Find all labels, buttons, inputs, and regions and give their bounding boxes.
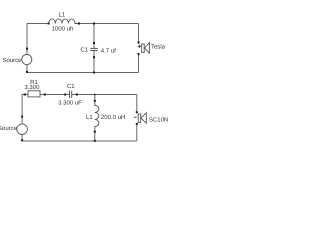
wire top circuit: top rail left segment [27,24,49,49]
wire top circuit: right branch lower [138,54,140,72]
svg-text:4.7 uf: 4.7 uf [101,47,116,54]
wire top circuit: bottom rail [27,72,139,74]
pin dot speaker Tesla + [138,42,140,44]
pin dot source (bottom circuit) bottom [21,139,23,141]
pin dot C1 top [93,42,95,44]
wire top circuit: left branch lower [26,64,28,72]
resistor R1 box [28,91,40,97]
wire C1 branch lower [93,51,95,73]
pin dot L1 (bottom) bottom [94,131,96,133]
wire bottom circuit: source bottom stub [21,134,23,141]
svg-text:C1: C1 [67,83,75,90]
capacitor C1 (top) plates [90,47,98,49]
svg-text:L1: L1 [58,12,65,19]
svg-text:200.0 uH: 200.0 uH [101,114,125,121]
pin dot C1 (bottom circuit) left [64,94,66,96]
speaker Tesla icon [142,43,150,54]
inductor L1 (bottom) coil [95,105,99,126]
label minus [134,116,137,118]
junction node C1 branch / top rail [93,23,95,25]
capacitor C1 (bottom) plates [69,91,71,98]
svg-text:3.300: 3.300 [24,84,40,91]
wire top circuit: source top stub [26,49,28,55]
svg-text:Source: Source [0,125,18,132]
inductor L1 (top) coil [49,19,79,24]
pin dot C1 (bottom circuit) right [76,94,78,96]
pin dot source top (+) [26,48,28,50]
source (top) circle [22,54,32,64]
wire top circuit: right branch upper [138,24,140,43]
pin dot speaker SC10N + [136,123,138,125]
svg-text:C1: C1 [80,46,88,53]
wire bottom circuit: right branch upper [136,95,138,113]
svg-text:L1: L1 [86,114,93,121]
wire bottom circuit: top rail right of cap [72,94,137,96]
junction node L1 branch / mid rail [94,94,95,95]
pin dot speaker Tesla - [138,53,140,55]
junction node C1 branch / bottom rail [93,72,95,74]
wire bottom circuit: right branch lower [136,124,138,141]
junction node L1 branch / bottom rail [94,140,96,142]
svg-text:Tesla: Tesla [151,44,166,51]
pin dot L1 (bottom) top [94,100,96,102]
pin dot L1 top left [48,23,50,25]
svg-text:SC10N: SC10N [149,117,168,124]
speaker SC10N icon [138,113,146,124]
label plus [138,45,142,49]
svg-text:3.300 uF: 3.300 uF [58,99,82,106]
pin dot source bottom [26,71,28,73]
pin dot R1 right [44,94,46,96]
svg-text:Source: Source [2,57,22,64]
pin dot L1 top right [78,23,80,25]
pin dot source (bottom circuit) top [21,116,23,118]
pin dot speaker SC10N - [136,111,138,113]
pin dot C1 bottom [93,56,95,58]
wire bottom circuit: top rail left of cap [22,95,69,117]
wire C1 branch upper [93,24,95,49]
wire top circuit: top rail right segment [79,23,139,25]
pin dot R1 left [24,94,26,96]
wire bottom circuit: source top stub [21,117,23,124]
source (bottom) circle [17,124,28,135]
wire L1 branch top [94,95,96,107]
wire bottom circuit: bottom rail [22,140,137,142]
wire L1 branch bottom [94,127,96,142]
svg-text:1000 uh: 1000 uh [52,26,74,33]
